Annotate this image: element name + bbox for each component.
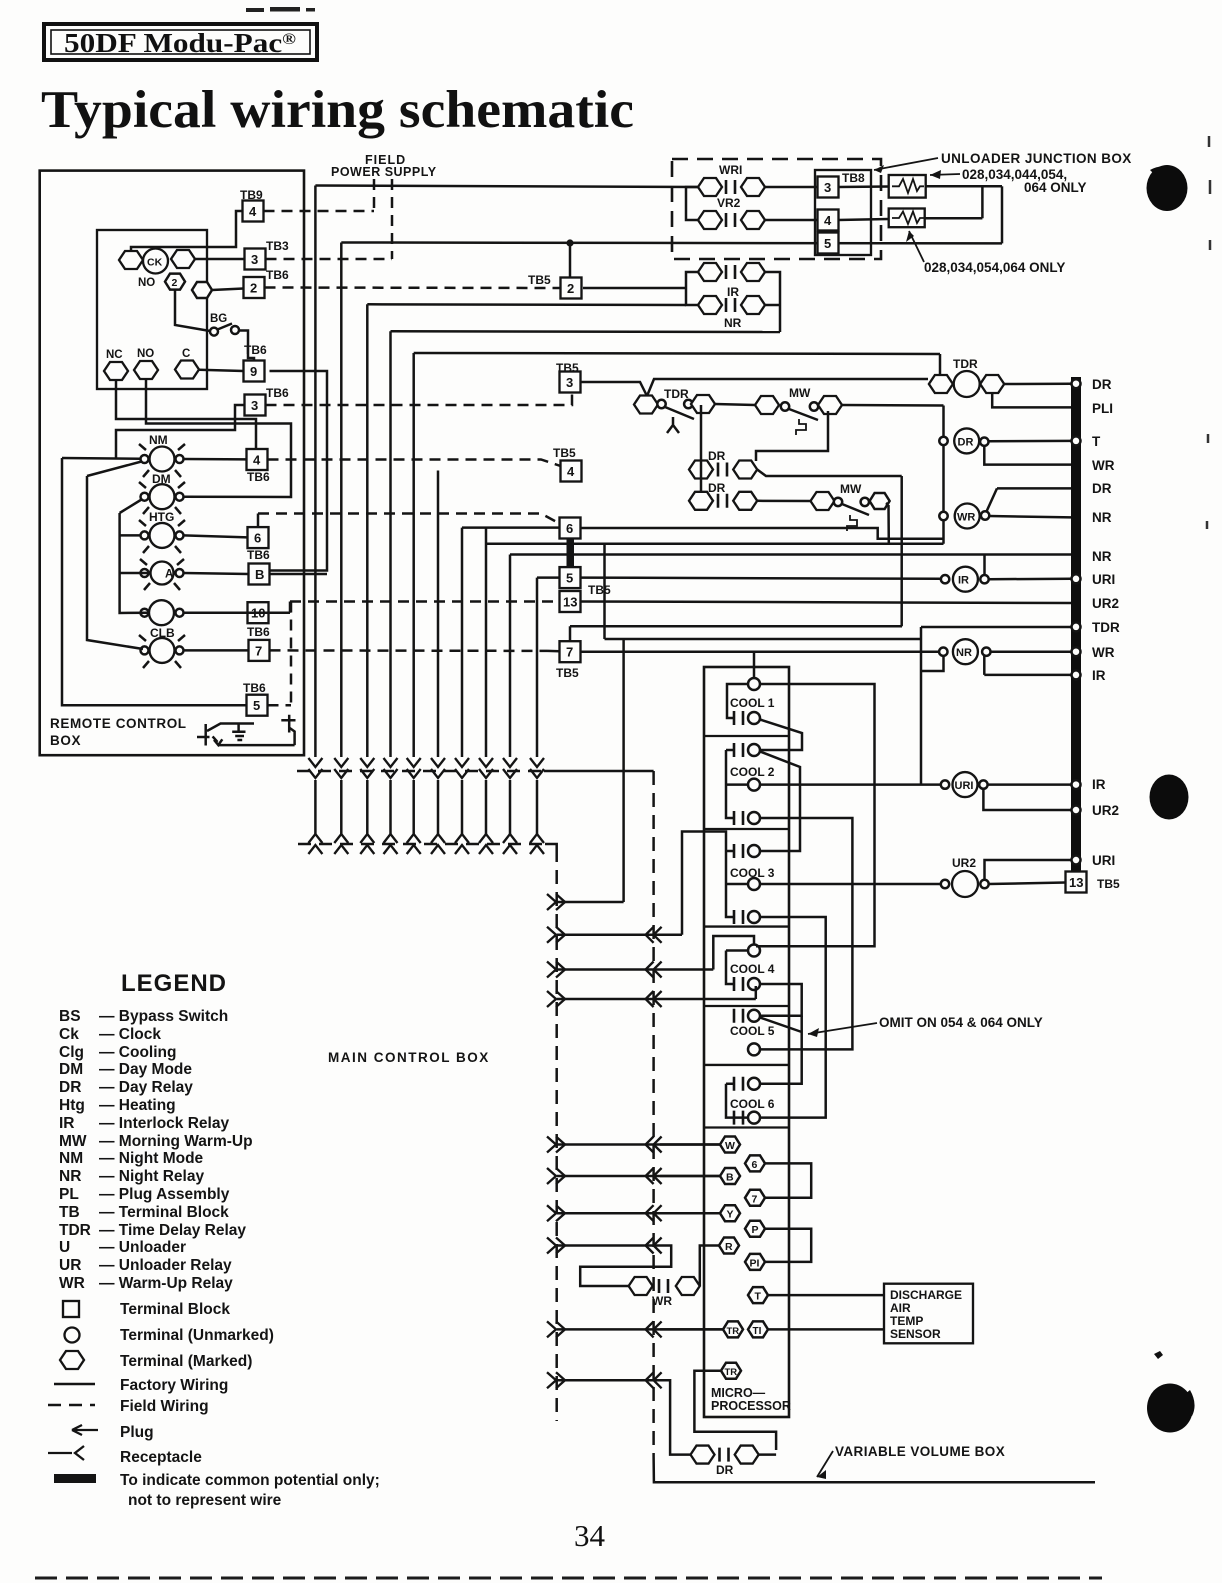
svg-text:UNLOADER JUNCTION BOX: UNLOADER JUNCTION BOX [941, 151, 1132, 166]
svg-text:TB6: TB6 [266, 386, 289, 400]
svg-text:TB6: TB6 [266, 268, 289, 282]
svg-text:NM: NM [149, 433, 168, 447]
svg-text:064 ONLY: 064 ONLY [1024, 180, 1087, 195]
svg-text:3: 3 [824, 180, 831, 195]
svg-text:DM: DM [152, 472, 171, 486]
svg-text:6: 6 [254, 531, 261, 546]
svg-text:URI: URI [1092, 853, 1115, 868]
svg-text:NR: NR [1092, 510, 1112, 525]
svg-text:DR: DR [1092, 481, 1112, 496]
svg-text:— Warm-Up Relay: — Warm-Up Relay [99, 1275, 233, 1292]
svg-text:NO: NO [137, 348, 154, 360]
svg-text:TDR: TDR [59, 1222, 91, 1239]
svg-text:— Terminal Block: — Terminal Block [99, 1204, 229, 1221]
svg-text:To indicate common potential o: To indicate common potential only; [120, 1472, 380, 1489]
svg-text:6: 6 [752, 1159, 758, 1171]
svg-text:Terminal (Unmarked): Terminal (Unmarked) [120, 1327, 274, 1344]
svg-text:BOX: BOX [50, 733, 81, 748]
svg-text:6: 6 [566, 521, 573, 536]
svg-text:SENSOR: SENSOR [890, 1327, 941, 1341]
svg-text:A: A [165, 569, 173, 581]
svg-text:MW: MW [789, 386, 811, 400]
svg-text:— Time Delay Relay: — Time Delay Relay [99, 1222, 246, 1239]
svg-text:NO: NO [138, 277, 155, 289]
svg-text:Terminal Block: Terminal Block [120, 1301, 230, 1318]
svg-text:U: U [59, 1239, 70, 1256]
svg-text:OMIT ON 054 & 064 ONLY: OMIT ON 054 & 064 ONLY [879, 1015, 1043, 1030]
svg-text:— Cooling: — Cooling [99, 1044, 177, 1061]
svg-text:4: 4 [824, 213, 832, 228]
svg-text:3: 3 [251, 398, 258, 413]
svg-text:— Plug Assembly: — Plug Assembly [99, 1186, 230, 1203]
svg-text:7: 7 [255, 643, 262, 658]
svg-text:Htg: Htg [59, 1097, 85, 1114]
svg-text:TDR: TDR [953, 357, 978, 371]
svg-text:TB5: TB5 [588, 583, 611, 597]
svg-text:TB5: TB5 [556, 666, 579, 680]
svg-text:— Interlock Relay: — Interlock Relay [99, 1115, 229, 1132]
svg-text:DR: DR [708, 481, 726, 495]
svg-text:TB5: TB5 [528, 273, 551, 287]
svg-text:WR: WR [1092, 458, 1115, 473]
svg-text:4: 4 [249, 204, 257, 219]
svg-text:Plug: Plug [120, 1424, 154, 1441]
svg-text:NM: NM [59, 1150, 83, 1167]
svg-text:3: 3 [251, 252, 258, 267]
svg-text:NR: NR [956, 647, 972, 659]
svg-text:CLB: CLB [150, 626, 175, 640]
svg-text:TB3: TB3 [266, 239, 289, 253]
svg-text:3: 3 [566, 375, 573, 390]
svg-text:2: 2 [567, 281, 574, 296]
svg-text:34: 34 [574, 1518, 606, 1553]
svg-text:VR2: VR2 [717, 196, 741, 210]
svg-text:5: 5 [566, 571, 573, 586]
svg-text:NR: NR [724, 316, 742, 330]
svg-text:MW: MW [840, 482, 862, 496]
svg-text:UR2: UR2 [952, 856, 976, 870]
svg-text:13: 13 [1069, 875, 1083, 890]
svg-text:9: 9 [250, 364, 257, 379]
svg-text:WR: WR [59, 1275, 85, 1292]
svg-text:COOL 1: COOL 1 [730, 696, 775, 710]
svg-text:Clg: Clg [59, 1044, 84, 1061]
svg-text:TI: TI [753, 1326, 762, 1337]
svg-text:DR: DR [708, 449, 726, 463]
svg-text:COOL 2: COOL 2 [730, 765, 775, 779]
svg-text:IR: IR [1092, 668, 1106, 683]
svg-text:WR: WR [957, 512, 975, 524]
svg-text:B: B [255, 567, 264, 582]
svg-text:028,034,054,064 ONLY: 028,034,054,064 ONLY [924, 260, 1065, 275]
svg-text:BG: BG [210, 313, 227, 325]
svg-text:URI: URI [1092, 572, 1115, 587]
svg-text:HTG: HTG [149, 510, 174, 524]
svg-text:TDR: TDR [1092, 620, 1120, 635]
svg-text:5: 5 [824, 236, 831, 251]
svg-text:TR: TR [725, 1367, 738, 1378]
svg-text:TB6: TB6 [247, 625, 270, 639]
svg-text:NR: NR [59, 1168, 81, 1185]
svg-text:TDR: TDR [664, 387, 689, 401]
svg-text:Typical wiring schematic: Typical wiring schematic [41, 81, 634, 139]
svg-text:— Clock: — Clock [99, 1026, 161, 1043]
svg-text:4: 4 [253, 453, 261, 468]
svg-text:13: 13 [563, 595, 577, 610]
svg-text:UR: UR [59, 1257, 81, 1274]
svg-text:IR: IR [958, 575, 969, 587]
svg-text:T: T [1092, 434, 1101, 449]
svg-text:WRI: WRI [719, 163, 742, 177]
svg-text:PL: PL [59, 1186, 79, 1203]
svg-text:URI: URI [955, 780, 974, 792]
svg-text:— Heating: — Heating [99, 1097, 176, 1114]
svg-text:— Night Relay: — Night Relay [99, 1168, 204, 1185]
svg-text:— Day Mode: — Day Mode [99, 1061, 192, 1078]
svg-text:— Unloader: — Unloader [99, 1239, 186, 1256]
svg-text:TB5: TB5 [553, 446, 576, 460]
svg-text:Y: Y [727, 1209, 734, 1221]
svg-text:50DF Modu-Pac®: 50DF Modu-Pac® [64, 28, 296, 58]
svg-text:NC: NC [106, 349, 123, 361]
svg-text:T: T [755, 1291, 762, 1303]
svg-text:Ck: Ck [59, 1026, 79, 1043]
svg-text:BS: BS [59, 1008, 81, 1025]
svg-text:— Night Mode: — Night Mode [99, 1150, 204, 1167]
svg-text:MICRO—: MICRO— [711, 1386, 766, 1400]
svg-text:CK: CK [147, 257, 163, 269]
svg-text:— Bypass Switch: — Bypass Switch [99, 1008, 228, 1025]
svg-text:7: 7 [566, 645, 573, 660]
svg-text:DISCHARGE: DISCHARGE [890, 1288, 962, 1302]
svg-text:C: C [182, 348, 190, 360]
svg-text:DM: DM [59, 1061, 83, 1078]
svg-text:— Day Relay: — Day Relay [99, 1079, 193, 1096]
svg-text:PI: PI [750, 1257, 760, 1269]
svg-text:TEMP: TEMP [890, 1314, 923, 1328]
svg-text:7: 7 [752, 1193, 758, 1205]
svg-text:TB6: TB6 [247, 548, 270, 562]
svg-text:Terminal (Marked): Terminal (Marked) [120, 1353, 252, 1370]
svg-text:MAIN CONTROL BOX: MAIN CONTROL BOX [328, 1050, 490, 1065]
svg-text:DR: DR [1092, 377, 1112, 392]
svg-text:not to represent wire: not to represent wire [128, 1492, 282, 1509]
svg-text:R: R [725, 1241, 733, 1253]
svg-text:P: P [752, 1224, 759, 1236]
svg-text:TB6: TB6 [247, 470, 270, 484]
svg-text:TB6: TB6 [243, 681, 266, 695]
svg-text:UR2: UR2 [1092, 596, 1119, 611]
svg-text:NR: NR [1092, 549, 1112, 564]
svg-text:POWER SUPPLY: POWER SUPPLY [331, 165, 437, 179]
svg-text:AIR: AIR [890, 1301, 911, 1315]
svg-text:— Unloader Relay: — Unloader Relay [99, 1257, 232, 1274]
svg-text:Receptacle: Receptacle [120, 1449, 202, 1466]
svg-text:TB9: TB9 [240, 188, 263, 202]
svg-text:B: B [726, 1172, 734, 1184]
svg-text:WR: WR [652, 1294, 672, 1308]
svg-text:UR2: UR2 [1092, 803, 1119, 818]
svg-text:PLI: PLI [1092, 401, 1113, 416]
svg-text:— Morning Warm-Up: — Morning Warm-Up [99, 1133, 253, 1150]
svg-text:COOL 6: COOL 6 [730, 1097, 775, 1111]
svg-text:IR: IR [727, 285, 739, 299]
svg-text:COOL 4: COOL 4 [730, 962, 775, 976]
svg-text:DR: DR [716, 1463, 734, 1477]
svg-text:2: 2 [172, 277, 178, 289]
svg-text:MW: MW [59, 1133, 87, 1150]
svg-text:DR: DR [59, 1079, 81, 1096]
svg-text:2: 2 [250, 281, 257, 296]
svg-text:5: 5 [253, 698, 260, 713]
svg-text:Factory Wiring: Factory Wiring [120, 1377, 228, 1394]
svg-text:TR: TR [727, 1326, 740, 1337]
svg-text:TB5: TB5 [556, 361, 579, 375]
svg-text:TB: TB [59, 1204, 80, 1221]
svg-text:COOL 5: COOL 5 [730, 1024, 775, 1038]
svg-text:TB5: TB5 [1097, 877, 1120, 891]
svg-text:DR: DR [958, 437, 974, 449]
svg-text:REMOTE CONTROL: REMOTE CONTROL [50, 716, 187, 731]
svg-text:WR: WR [1092, 645, 1115, 660]
svg-text:LEGEND: LEGEND [121, 970, 227, 997]
svg-text:TB8: TB8 [842, 171, 865, 185]
svg-text:W: W [725, 1140, 735, 1152]
svg-text:Field Wiring: Field Wiring [120, 1398, 209, 1415]
svg-text:VARIABLE VOLUME BOX: VARIABLE VOLUME BOX [835, 1444, 1005, 1459]
svg-text:IR: IR [1092, 777, 1106, 792]
svg-text:4: 4 [567, 464, 575, 479]
svg-text:IR: IR [59, 1115, 75, 1132]
svg-text:PROCESSOR: PROCESSOR [711, 1399, 791, 1413]
